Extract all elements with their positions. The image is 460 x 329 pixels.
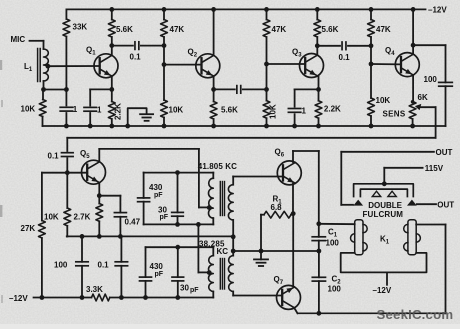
resistor 5.6K Q2 emitter	[210, 102, 217, 120]
wire L1 bottom lead	[43, 81, 45, 90]
label 2.7K	[74, 213, 91, 222]
junction ground rail left	[231, 249, 236, 254]
wire tank1 tap elbow	[199, 206, 209, 208]
wire OUT top	[341, 152, 434, 205]
label 10K rotated	[269, 104, 278, 119]
wire Q6 emitter lead	[292, 184, 294, 214]
svg-text:33K: 33K	[73, 23, 88, 32]
capacitor 1 Q1 emitter bypass	[84, 107, 96, 111]
wire mid rail	[67, 235, 233, 237]
transformer T1 primary	[209, 178, 214, 224]
resistor 3.3K	[92, 294, 110, 301]
wire Q4 base	[371, 63, 401, 65]
label 1 Q1 bypass	[97, 105, 102, 114]
transformer T1 core	[220, 182, 224, 216]
label C1	[328, 228, 338, 239]
svg-text:115V: 115V	[425, 164, 444, 173]
junction 6K rail	[410, 124, 415, 129]
svg-text:6K: 6K	[418, 93, 428, 102]
junction C2 bottom rail	[317, 311, 322, 316]
wire Q4 collector	[412, 9, 414, 53]
label 430pF tank2	[150, 262, 164, 278]
junction 10K-3 rail	[264, 124, 269, 129]
junction Q1 collector coupling node	[109, 43, 114, 48]
junction 30pF-1 bottom	[175, 222, 180, 227]
label OUT bottom	[437, 201, 454, 210]
junction 27K rail	[40, 295, 45, 300]
label 100 output cap	[424, 75, 438, 84]
svg-text:0.1: 0.1	[98, 261, 110, 270]
junction bypass cap rail	[88, 124, 93, 129]
label -12V top right	[428, 6, 447, 15]
junction Q3 collector coupling node	[315, 43, 320, 48]
wire 2.2K Q1 leads	[111, 89, 113, 126]
watermark	[377, 307, 454, 322]
junction 100 lower rail	[80, 295, 85, 300]
label 115V	[425, 164, 444, 173]
junction ground elbow rail	[125, 124, 130, 129]
label K1	[380, 235, 390, 246]
wire tank2 feed	[197, 224, 199, 272]
wire Q3 emitter to bypass	[295, 88, 319, 90]
label -12V bottom left	[9, 294, 28, 303]
ground lower section	[254, 259, 268, 266]
junction relay feed node	[316, 221, 321, 226]
capacitor C1 100	[312, 237, 325, 241]
resistor R1 6.8	[264, 211, 291, 218]
junction C1 ground rail	[317, 249, 322, 254]
junction Q3 base cap node	[264, 87, 269, 92]
svg-text:10K: 10K	[44, 213, 59, 222]
wire Q6 collector	[293, 151, 319, 162]
wire 430pF-2 leads	[145, 247, 147, 297]
svg-text:27K: 27K	[21, 224, 36, 233]
svg-text:5.6K: 5.6K	[322, 25, 339, 34]
transistor Q1	[94, 54, 118, 78]
wire 47K-3 column	[370, 9, 372, 126]
wire -12V rail right	[110, 297, 214, 299]
capacitor 30pF tank2	[172, 277, 184, 281]
label -12V K1	[373, 286, 392, 295]
wire 5.6K Q2 leads	[213, 89, 215, 126]
label SENS	[383, 110, 406, 119]
transformer T2 core	[220, 259, 224, 290]
wire Q6 base	[233, 176, 283, 178]
svg-text:–12V: –12V	[373, 286, 392, 295]
wire Q5 emitter lead	[98, 183, 100, 196]
junction Q2 collector rail	[211, 7, 216, 12]
capacitor 100 output	[439, 82, 453, 86]
svg-text:100: 100	[328, 285, 342, 294]
wire 0.1 lower leads	[120, 236, 122, 297]
wire Q5 collector	[99, 149, 199, 162]
resistor 10K Q5	[64, 208, 71, 226]
resistor 2.7K	[96, 204, 103, 222]
junction Q4 base node	[369, 62, 374, 67]
label 5.6K first	[116, 25, 133, 34]
node L1 tap	[46, 64, 51, 69]
label Q3	[292, 48, 302, 59]
junction 10K-4 rail	[369, 124, 374, 129]
resistor 47K first	[161, 20, 168, 38]
svg-text:pF: pF	[154, 192, 163, 199]
label 430pF tank1	[149, 183, 163, 199]
wire Q1 base from L1 tap	[48, 65, 100, 67]
junction Q4 collector branch	[411, 43, 416, 48]
junction T2 primary tap	[207, 270, 212, 275]
wire Q6-Q7 link	[292, 214, 294, 286]
transformer T2 primary	[209, 256, 214, 298]
wire tank1 box top	[144, 173, 214, 179]
label 0.47	[125, 218, 141, 227]
junction L1 bottom node	[41, 87, 46, 92]
label DOUBLE	[368, 201, 402, 210]
label Q6	[275, 148, 285, 159]
wire R1 right lead	[291, 214, 293, 216]
wire Q4 emitter lead	[412, 75, 415, 126]
label 10K Q5	[44, 213, 59, 222]
label 5.6K Q2	[221, 106, 238, 115]
junction 0.47 mid rail	[118, 234, 123, 239]
capacitor 430pF tank1	[138, 198, 150, 202]
junction coupling node Q2 base	[162, 43, 167, 48]
resistor 27K	[39, 221, 46, 239]
junction mid rail right end	[231, 234, 236, 239]
label 41.805 KC	[198, 162, 237, 171]
wire 5.6K column	[111, 9, 113, 54]
label C1 100	[326, 239, 340, 248]
wire tank1 box bottom	[144, 223, 214, 225]
label C2 100	[328, 285, 342, 294]
contact left	[353, 200, 363, 206]
resistor 2.2K Q3 emitter	[315, 101, 322, 119]
capacitor 1 bias bypass	[60, 107, 72, 111]
svg-text:2.2K: 2.2K	[114, 103, 123, 120]
wire coupling 0.1 left	[112, 45, 133, 47]
svg-text:–12V: –12V	[428, 6, 447, 15]
label 0.1 first	[130, 53, 142, 62]
wire cap1 leads	[65, 90, 67, 127]
wire 100 cap leads	[81, 236, 83, 297]
label 0.1 lower	[98, 261, 110, 270]
label Q4	[385, 46, 395, 57]
svg-text:47K: 47K	[376, 25, 391, 34]
relay K1 right coil	[404, 220, 421, 255]
wire Q2 base	[164, 64, 202, 66]
label 30pF tank1	[158, 206, 169, 222]
wire 430pF-1 leads	[143, 173, 145, 225]
wire bottom rail	[298, 312, 446, 314]
transformer T2 secondary	[228, 251, 233, 296]
wire tank1 feed	[198, 149, 200, 208]
junction 0.1 lower rail	[119, 295, 124, 300]
wire Q2 collector	[213, 9, 215, 54]
wire 47K-2 column	[266, 9, 268, 126]
relay K1 left coil	[351, 220, 368, 255]
svg-text:SENS: SENS	[383, 110, 406, 119]
wire Q2 emitter cap right	[243, 88, 267, 90]
junction 100cap mid rail	[80, 234, 85, 239]
label 5.6K Q3	[322, 25, 339, 34]
wire Q7 base	[233, 295, 282, 297]
junction 47K-2 rail	[264, 7, 269, 12]
wire Q7 emitter-out lead	[294, 308, 297, 313]
wire bypass cap leads	[89, 89, 91, 126]
wire 2.2K Q3 leads	[318, 89, 320, 126]
label Q2	[188, 48, 198, 59]
svg-text:10K: 10K	[269, 104, 278, 119]
svg-text:0.1: 0.1	[339, 53, 351, 62]
resistor 10K Q4 base	[368, 98, 375, 116]
wire tank2 box top	[146, 247, 214, 255]
label 10K input	[21, 105, 36, 114]
svg-text:KC: KC	[217, 247, 229, 256]
junction tank1 bottom feed	[196, 222, 201, 227]
wire 30pF-2 leads	[177, 247, 179, 297]
wire SENS feedback	[67, 107, 435, 151]
label 100 lower	[54, 261, 68, 270]
label 0.1 second	[339, 53, 351, 62]
junction Q3 bypass rail	[292, 124, 297, 129]
fulcrum inner bracket	[360, 189, 407, 196]
capacitor 30pF tank1	[172, 212, 184, 216]
wire Q1 emitter lead	[111, 76, 113, 89]
capacitor 0.1 coupling Q1-Q2	[135, 42, 139, 50]
junction Q4 coupling node	[369, 43, 374, 48]
svg-text:430: 430	[149, 183, 163, 192]
wire -12V rail left	[34, 297, 92, 299]
label 27K	[21, 224, 36, 233]
wire ground stem	[260, 251, 262, 259]
label R1	[273, 195, 283, 206]
wire top-section ground rail	[43, 125, 446, 127]
label 2.2K Q3	[324, 105, 341, 114]
resistor 47K second	[263, 20, 270, 38]
transformer T1 secondary	[228, 177, 233, 237]
svg-text:2.2K: 2.2K	[324, 105, 341, 114]
label FULCRUM	[363, 210, 404, 219]
junction 2.2K rail	[109, 124, 114, 129]
wire 0.47 leads	[99, 196, 120, 237]
junction 5.6K top rail	[109, 7, 114, 12]
junction 30pF-2 top	[175, 245, 180, 250]
junction 5.6K-2 rail	[315, 7, 320, 12]
label 2.2K rotated	[114, 103, 123, 120]
wire 27K column	[41, 173, 43, 298]
wire K1 frame	[341, 253, 427, 273]
svg-text:OUT: OUT	[437, 201, 454, 210]
wire 5.6K-2 column	[316, 9, 318, 54]
svg-text:5.6K: 5.6K	[221, 106, 238, 115]
capacitor 430pF tank2	[140, 277, 152, 281]
wire R1 left lead	[261, 215, 264, 251]
pot wiper arrow	[415, 104, 436, 110]
wire OUT bottom	[417, 203, 436, 205]
inductor L1 core	[38, 49, 41, 82]
wire coupling 0.1-2 left	[317, 45, 340, 47]
wire 0.1 to base node	[66, 158, 68, 173]
svg-text:2.7K: 2.7K	[74, 213, 91, 222]
wire 10K-5 column	[66, 173, 68, 237]
svg-text:430: 430	[150, 262, 164, 271]
wire C1 column top	[318, 151, 320, 224]
junction R1 ground node	[259, 249, 264, 254]
junction Q5 base node	[65, 170, 70, 175]
wire coupling 0.1 right	[141, 45, 164, 47]
label L1	[24, 62, 33, 73]
label MIC	[11, 35, 26, 44]
label 10K Q4	[376, 96, 391, 105]
junction 47K-1 rail	[162, 7, 167, 12]
svg-text:10K: 10K	[169, 106, 184, 115]
junction T1 primary tap	[207, 205, 212, 210]
label Q1	[86, 46, 96, 57]
wire 30pF-1 leads	[177, 173, 179, 225]
label 47K second	[272, 25, 287, 34]
label Q7	[274, 275, 284, 286]
resistor 5.6K Q3 collector	[314, 20, 321, 38]
junction 6K top	[411, 100, 415, 104]
svg-text:1: 1	[73, 105, 78, 114]
junction 10K-2 rail	[162, 124, 167, 129]
label 47K first	[170, 25, 185, 34]
junction 430pF-2 rail	[143, 295, 148, 300]
fulcrum pivot right	[388, 191, 396, 196]
label 33K	[73, 23, 88, 32]
junction 2.7K mid rail	[97, 234, 102, 239]
junction 2.2K-2 rail	[316, 124, 321, 129]
svg-text:DOUBLE: DOUBLE	[368, 201, 402, 210]
junction Q2 base node	[162, 62, 167, 67]
label 0.1 Q5 input	[48, 152, 60, 161]
label 6.8	[271, 203, 283, 212]
wire MIC lead	[30, 41, 44, 49]
transistor Q3	[300, 54, 324, 78]
label Q5	[80, 149, 90, 160]
junction 47K-3 rail	[369, 7, 374, 12]
fulcrum outer bracket	[354, 184, 414, 197]
capacitor 0.1 lower	[115, 262, 127, 266]
junction Q2 emitter node	[211, 87, 216, 92]
inductor L1 winding	[44, 49, 49, 81]
junction 5.6K-3 rail	[211, 124, 216, 129]
svg-text:1: 1	[97, 105, 102, 114]
svg-text:FULCRUM: FULCRUM	[363, 210, 404, 219]
wire 33K column	[65, 9, 67, 89]
svg-text:SeekIC.com: SeekIC.com	[377, 307, 454, 322]
svg-text:10K: 10K	[376, 96, 391, 105]
wire Q2 emitter cap left	[214, 88, 235, 90]
label OUT top	[436, 148, 453, 157]
wire Q3 emitter lead	[318, 76, 320, 90]
label 30pF tank2	[180, 284, 199, 295]
label 3.3K	[86, 285, 103, 294]
wire Q5 base	[42, 172, 87, 174]
svg-text:100: 100	[54, 261, 68, 270]
resistor 2.2K Q1 emitter	[108, 102, 115, 120]
svg-text:3.3K: 3.3K	[86, 285, 103, 294]
junction 30pF-1 top	[175, 170, 180, 175]
transistor Q7	[277, 285, 301, 309]
ground top section	[140, 114, 153, 121]
resistor 47K third	[368, 20, 375, 38]
wire ground elbow	[128, 108, 147, 126]
label 47K third	[376, 25, 391, 34]
resistor 5.6K Q1 collector	[108, 20, 115, 38]
junction Q5 emitter node	[97, 193, 102, 198]
wire 47K-1 column	[163, 9, 165, 126]
label C2	[332, 275, 342, 286]
wire C2 leads	[318, 251, 320, 313]
wire Q2 emitter lead	[213, 76, 215, 89]
capacitor 1 Q3 emitter bypass	[288, 109, 300, 113]
svg-text:OUT: OUT	[436, 148, 453, 157]
resistor 33K	[63, 19, 70, 37]
wire 115V	[384, 168, 422, 184]
svg-text:41.805 KC: 41.805 KC	[198, 162, 237, 171]
transistor Q2	[196, 54, 220, 78]
junction Q3 emitter node	[316, 87, 321, 92]
svg-text:30: 30	[180, 284, 189, 293]
svg-text:6.8: 6.8	[271, 203, 283, 212]
wire 2.7K leads	[98, 196, 100, 237]
svg-text:pF: pF	[160, 214, 169, 221]
capacitor 0.1 coupling Q3-Q4	[342, 42, 346, 50]
label 10K Q2	[169, 106, 184, 115]
resistor 10K input bias	[39, 100, 46, 117]
label 6K	[418, 93, 428, 102]
resistor 10K Q3 base	[263, 101, 270, 119]
wire secondary jog	[232, 237, 234, 251]
resistor 6K SENS pot	[409, 102, 416, 120]
wire L1 node to 33K/cap node	[44, 89, 67, 91]
wire Q3 bypass leads	[294, 89, 296, 126]
capacitor 100 lower	[76, 262, 88, 266]
wire right coil feed	[416, 224, 445, 226]
label 38.285 KC	[199, 240, 228, 256]
junction Q1 emitter node	[109, 87, 114, 92]
svg-text:47K: 47K	[170, 25, 185, 34]
transistor Q6	[277, 161, 301, 185]
svg-text:pF: pF	[190, 287, 199, 294]
wire left coil feed	[319, 223, 355, 225]
wire Q1 emitter to bypass cap	[90, 88, 112, 90]
svg-text:1: 1	[302, 106, 307, 115]
capacitor C2 100	[312, 277, 325, 281]
svg-text:47K: 47K	[272, 25, 287, 34]
svg-text:5.6K: 5.6K	[116, 25, 133, 34]
junction Q6 emitter node	[291, 211, 296, 216]
junction cap1 bottom rail	[64, 124, 69, 129]
svg-text:100: 100	[424, 75, 438, 84]
wire -12V stem K1	[386, 272, 388, 284]
wire right riser	[445, 225, 447, 314]
resistor 10K Q2 base	[161, 100, 168, 118]
label 1 Q3 bypass	[302, 106, 307, 115]
label 1 bias bypass	[73, 105, 78, 114]
capacitor 0.47	[114, 213, 126, 217]
junction 33K bottom node	[64, 87, 69, 92]
svg-text:–12V: –12V	[9, 294, 28, 303]
fulcrum pivot left	[372, 191, 380, 196]
capacitor 0.1 Q5 input	[62, 153, 74, 157]
svg-text:0.1: 0.1	[130, 53, 142, 62]
wire Q3 base	[267, 63, 306, 65]
junction 115V bar	[382, 181, 387, 186]
capacitor Q2-Q3 emitter coupling	[237, 86, 241, 94]
transistor Q5	[82, 160, 106, 184]
svg-text:10K: 10K	[21, 105, 36, 114]
